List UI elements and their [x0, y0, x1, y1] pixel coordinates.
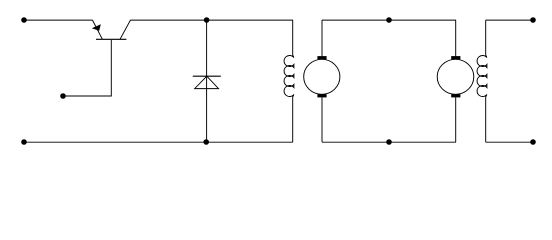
- node: mid top junction: [386, 17, 392, 23]
- motor M1 top lead: [321, 20, 323, 57]
- node: diode bottom junction: [203, 139, 209, 145]
- inductor L2 (leads and humps): [477, 20, 487, 142]
- motor M1 bottom lead: [321, 97, 323, 142]
- node: right top terminal: [530, 17, 536, 23]
- motor M1 bottom brush: [317, 94, 326, 97]
- transistor Q1 base bar: [96, 38, 126, 40]
- wire: bottom rail M1 to M2: [322, 141, 456, 143]
- transistor Q1 emitter diagonal: [92, 20, 102, 39]
- node: diode top junction: [204, 17, 210, 23]
- wire: top rail L2 to right terminal: [486, 19, 533, 21]
- diode D1 triangle: [195, 76, 219, 88]
- node: right bottom terminal: [530, 139, 536, 145]
- motor M2 bottom lead: [455, 97, 457, 142]
- diode D1 cathode bar: [193, 75, 221, 77]
- motor M2 bottom brush: [451, 94, 460, 97]
- transistor Q1 emitter arrow: [92, 24, 101, 31]
- node: left bottom terminal: [21, 139, 27, 145]
- motor M1 top brush: [317, 56, 326, 59]
- node: mid bottom junction: [386, 139, 392, 145]
- wire: bottom rail left: [24, 141, 293, 143]
- wire: base lead down and left: [63, 40, 111, 96]
- wire: diode D1 vertical: [206, 20, 208, 142]
- transistor Q1 collector diagonal: [120, 20, 131, 39]
- node: base terminal: [60, 93, 66, 99]
- motor M1 body: [304, 59, 340, 94]
- motor M2 top brush: [451, 56, 460, 59]
- wire: top rail left (emitter feed): [24, 19, 92, 21]
- motor M2 top lead: [455, 20, 457, 57]
- node: left top terminal: [21, 17, 27, 23]
- motor M2 body: [437, 59, 474, 94]
- wire: top rail M1 to M2: [322, 19, 456, 21]
- inductor L1 (leads and humps): [284, 20, 294, 142]
- wire: top rail collector to coil L1 corner: [131, 19, 294, 21]
- wire: bottom rail L2 to right terminal: [486, 141, 533, 143]
